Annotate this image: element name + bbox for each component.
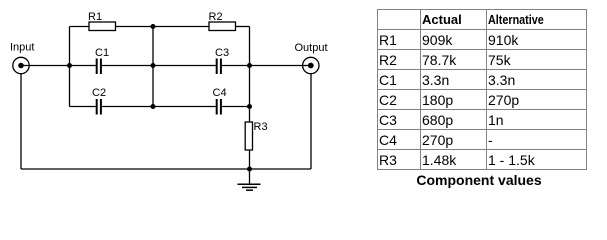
wire left vertical <box>69 27 71 107</box>
wire C2 to C4 <box>102 106 216 108</box>
svg-text:R3: R3 <box>254 121 268 133</box>
wire top rail middle <box>116 26 210 28</box>
wire C3 to output <box>222 65 311 67</box>
table caption <box>374 172 584 188</box>
wire bottom rail <box>21 168 311 170</box>
node top middle <box>151 24 156 29</box>
wire C4 rail right <box>222 106 250 108</box>
wire top rail right <box>236 26 250 28</box>
input connector <box>13 57 29 73</box>
wire right vertical lower <box>249 150 251 169</box>
svg-text:R1: R1 <box>88 11 102 23</box>
svg-text:C2: C2 <box>92 87 106 99</box>
wire C2 rail left <box>70 106 96 108</box>
wire output ground stem <box>310 74 312 169</box>
node mid left <box>67 63 72 68</box>
capacitor C3 <box>217 59 221 75</box>
node mid middle <box>151 63 156 68</box>
resistor R1 <box>89 22 116 31</box>
capacitor C4 <box>217 99 221 115</box>
wire input to C1 <box>21 65 96 67</box>
wire input ground stem <box>20 74 22 169</box>
ground <box>238 184 261 190</box>
svg-text:R2: R2 <box>209 11 223 23</box>
wire middle vertical <box>152 27 154 107</box>
svg-text:C4: C4 <box>213 87 227 99</box>
wire right vertical upper <box>249 27 251 123</box>
capacitor C1 <box>97 59 101 75</box>
svg-text:C3: C3 <box>215 47 229 59</box>
svg-text:C1: C1 <box>95 47 109 59</box>
wire ground stub <box>249 169 251 184</box>
node ground <box>247 167 252 172</box>
component values table <box>377 9 587 170</box>
node low right <box>247 104 252 109</box>
svg-text:Output: Output <box>295 42 328 54</box>
wire top rail left <box>70 26 90 28</box>
node mid right <box>247 63 252 68</box>
node low middle <box>151 104 156 109</box>
circuit schematic <box>0 0 370 200</box>
svg-text:Input: Input <box>10 42 34 54</box>
resistor R2 <box>209 22 236 31</box>
resistor R3 <box>245 122 252 150</box>
output connector <box>303 57 319 73</box>
capacitor C2 <box>97 99 101 115</box>
wire C1 to C3 <box>102 65 216 67</box>
